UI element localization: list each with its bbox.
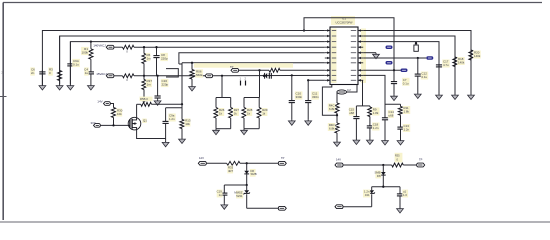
resistor R4C 6.8k — [335, 103, 339, 113]
wire row2 cap branch — [166, 107, 182, 109]
ground C9 — [165, 141, 167, 143]
capacitor C19 1u — [223, 185, 225, 192]
wire rail VSENSE — [42, 31, 324, 86]
diode D5 inline — [264, 73, 266, 79]
capacitor C15 — [355, 106, 357, 116]
resistor R8 — [269, 68, 280, 72]
wire bottom-right pin down — [347, 85, 358, 93]
node blue flag row4 — [386, 46, 393, 50]
wire sub2 bottom to flag — [343, 206, 372, 208]
resistor R4D 6.8k — [335, 123, 339, 133]
resistor R06 560k — [191, 63, 193, 70]
svg-text:UCC28070PW: UCC28070PW — [335, 20, 353, 24]
svg-text:10k: 10k — [185, 122, 190, 126]
ground R20 — [470, 94, 472, 96]
svg-text:6.8k: 6.8k — [329, 107, 335, 111]
ground C16 — [157, 99, 159, 101]
ground C18 — [369, 139, 371, 141]
svg-text:330n: 330n — [296, 95, 303, 99]
capacitor C9 1.2n — [165, 108, 167, 121]
ground pair — [243, 129, 245, 131]
wire sub2 top — [343, 164, 392, 166]
capacitor C17 4.7u — [438, 42, 440, 65]
wire Q1 source — [137, 130, 166, 139]
wire pair feed — [221, 76, 223, 98]
svg-text:14V: 14V — [336, 158, 341, 162]
node blue flag row6 — [426, 56, 433, 60]
wire sub1 top — [206, 162, 226, 164]
svg-text:SMB: SMB — [251, 172, 257, 176]
capacitor C10 330n — [291, 75, 293, 97]
svg-text:14V: 14V — [97, 100, 102, 104]
resistor R26 — [215, 98, 217, 108]
resistor R29 — [258, 98, 260, 108]
ground R37 — [143, 97, 145, 99]
wire rail2 right to R18 — [363, 36, 455, 94]
svg-text:R5B 0: R5B 0 — [140, 97, 148, 101]
wire pin9 right to C14 branch — [363, 75, 400, 104]
svg-text:12V: 12V — [199, 156, 204, 160]
svg-text:1m: 1m — [147, 57, 152, 61]
wire row E — [179, 53, 325, 64]
ground row5 — [375, 53, 377, 55]
svg-text:1u: 1u — [219, 193, 223, 197]
capacitor inline row I — [268, 73, 270, 79]
resistor R30 10k — [110, 104, 113, 108]
svg-text:0.1u: 0.1u — [422, 75, 428, 79]
wire pair bottom — [216, 128, 231, 130]
ground C13 — [400, 139, 402, 141]
capacitor C14 — [384, 104, 386, 116]
svg-text:140k: 140k — [474, 54, 481, 58]
jumper J1 pins — [240, 81, 242, 86]
resistor R6 1M — [143, 47, 145, 53]
svg-text:4.7u: 4.7u — [443, 63, 449, 67]
svg-text:D8: D8 — [377, 174, 381, 178]
capacitor C18 1.2n — [369, 117, 371, 126]
wire sub1 bottom to flag — [247, 207, 279, 209]
node flag sub2 bottom left — [335, 205, 343, 209]
testpoint TP1 — [415, 42, 417, 44]
svg-text:1.2n: 1.2n — [404, 128, 410, 132]
wire rail C — [70, 42, 324, 84]
svg-text:R35: R35 — [395, 154, 400, 158]
capacitor C11 330n — [307, 80, 309, 97]
wire rail1 right to R20 — [363, 31, 471, 94]
resistor R1 100k — [90, 42, 92, 49]
svg-text:1.0: 1.0 — [403, 193, 407, 197]
resistor R28 — [243, 98, 245, 108]
wire VCC top loop — [304, 18, 394, 71]
wire row J — [308, 79, 325, 81]
ground pair — [215, 129, 217, 131]
svg-text:431: 431 — [365, 193, 370, 197]
wire row 15VAC — [134, 75, 205, 77]
capacitor C6 — [41, 70, 43, 72]
resistor R13 10k — [180, 120, 184, 129]
resistor R9 1.8k — [369, 106, 371, 107]
svg-text:220p: 220p — [162, 83, 169, 87]
ground C4 — [90, 84, 92, 86]
wire sub2 mid row — [372, 186, 400, 188]
ground R06 — [191, 85, 193, 87]
svg-text:3: 3 — [1, 71, 3, 75]
ground C9A — [69, 84, 71, 86]
wire rail B — [60, 36, 325, 84]
svg-text:15VACJ: 15VACJ — [96, 72, 107, 76]
svg-text:10k: 10k — [117, 112, 122, 116]
capacitor C20 1u — [399, 187, 401, 192]
diode D6 SMB — [246, 163, 248, 171]
ground C20 — [399, 207, 401, 209]
resistor R11 1.8k — [400, 104, 402, 106]
wire row5 to ground — [363, 52, 376, 54]
capacitor C8 220u — [156, 47, 158, 55]
op-amp U1 UCC28070PW body — [331, 16, 355, 25]
ground C17 — [438, 94, 440, 96]
svg-text:140VACJ: 140VACJ — [93, 43, 106, 47]
svg-text:TP: TP — [419, 158, 423, 162]
resistor R4 0ohm — [114, 75, 123, 77]
resistor R37 1M — [143, 76, 145, 80]
svg-text:U1: U1 — [342, 17, 346, 21]
wire pair feed — [259, 70, 261, 97]
resistor R20 140k — [469, 50, 473, 60]
svg-text:140k: 140k — [458, 61, 465, 65]
wire sub2 top right — [403, 164, 416, 166]
capacitor C13 1.2n — [400, 115, 402, 126]
wire drain row — [137, 103, 141, 105]
border tick left — [0, 96, 7, 98]
svg-text:1.2n: 1.2n — [169, 117, 175, 121]
svg-text:1u: 1u — [85, 71, 89, 75]
ground chain — [336, 141, 338, 143]
svg-text:1.2n: 1.2n — [373, 126, 379, 130]
ground R13 — [181, 138, 183, 140]
ground C6 — [41, 84, 43, 86]
capacitor C12 0.1u — [417, 58, 419, 73]
ground C19 — [223, 203, 225, 205]
ground C10 — [291, 119, 293, 121]
resistor R3 — [59, 36, 61, 71]
svg-text:100k: 100k — [81, 51, 88, 55]
wire RT to chain — [336, 92, 338, 103]
wire vertical from row G — [181, 63, 183, 105]
wire sub1 top right — [240, 162, 278, 164]
inductor RT oval — [337, 90, 347, 94]
wire rail3 right to C17 — [363, 42, 439, 94]
wire row H — [239, 69, 269, 71]
capacitor C4 1u — [90, 68, 92, 72]
svg-text:0.1u: 0.1u — [403, 81, 409, 85]
ground C11 — [307, 119, 309, 121]
resistor R33 — [227, 161, 240, 165]
transistor Q1 — [128, 117, 141, 130]
border frame bottom — [0, 221, 550, 223]
wire sub1 mid row — [224, 184, 246, 186]
svg-text:5231: 5231 — [236, 194, 243, 198]
svg-text:0.1u: 0.1u — [73, 63, 79, 67]
svg-text:TP: TP — [281, 156, 285, 160]
U1 pins — [325, 30, 330, 32]
svg-text:2n: 2n — [31, 71, 35, 75]
svg-text:4R7: 4R7 — [228, 169, 234, 173]
connector box J3 — [166, 69, 178, 77]
wire row6 to blue flag — [363, 57, 426, 59]
capacitor C16 220u — [157, 76, 159, 96]
wire gate row — [100, 124, 128, 126]
svg-text:560k: 560k — [196, 73, 203, 77]
diode D9 zener 431 — [371, 187, 373, 191]
svg-text:220p: 220p — [161, 57, 168, 61]
svg-text:Q1: Q1 — [143, 119, 147, 123]
ground C14 — [384, 139, 386, 141]
wire pair bottom — [244, 128, 259, 130]
svg-text:330n: 330n — [312, 95, 319, 99]
ground R3 — [59, 84, 61, 86]
wire row VINAC — [134, 46, 325, 48]
svg-text:1m: 1m — [147, 83, 152, 87]
ground C12 — [417, 93, 419, 95]
capacitor C7 0.1u — [393, 70, 395, 81]
diode D7 zener MMSZ — [246, 185, 248, 190]
node flag row I — [205, 74, 213, 78]
ground C15 — [355, 139, 357, 141]
wire row I — [213, 74, 325, 76]
resistor R35 0 — [392, 163, 404, 167]
diode D8 SMB — [382, 165, 384, 172]
wire Q1 drain — [136, 104, 138, 118]
node blue flag row8 — [401, 69, 408, 73]
ground R18 — [454, 94, 456, 96]
svg-text:1.8k: 1.8k — [373, 111, 379, 115]
wire GND pin down-left — [322, 85, 337, 116]
svg-text:u68: u68 — [349, 111, 354, 115]
border frame left — [2, 3, 4, 221]
wire pin10 right down — [362, 80, 364, 106]
resistor R27 — [230, 98, 232, 108]
svg-text:1.8k: 1.8k — [404, 110, 410, 114]
capacitor C9A — [69, 42, 71, 64]
svg-text:u68: u68 — [389, 114, 394, 118]
svg-text:6.8k: 6.8k — [329, 127, 335, 131]
resistor R18 140k — [453, 57, 457, 67]
wire row8 to blue flag — [363, 69, 400, 71]
ground C7 — [393, 95, 395, 97]
node flag sub1 bottom — [278, 206, 286, 210]
border frame top — [3, 2, 542, 4]
resistor R2 0ohm — [114, 46, 123, 48]
node blue flag row7 — [386, 61, 393, 65]
wire row G — [182, 62, 325, 64]
